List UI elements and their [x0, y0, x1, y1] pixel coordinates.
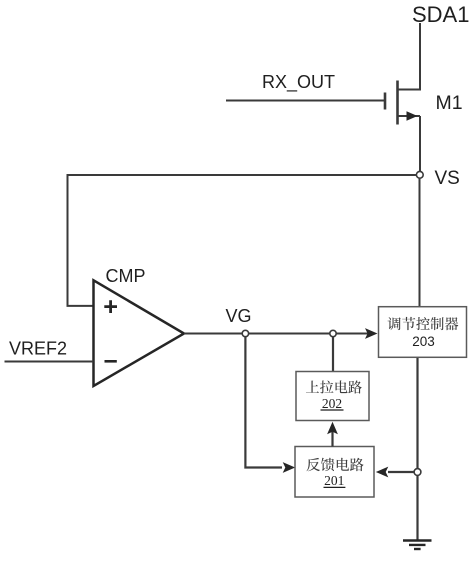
wire junction down to pull-up 202	[332, 337, 334, 372]
wire feedback: VS left and down to CMP + input	[68, 175, 417, 306]
wire VG node down and into feedback 201	[245, 337, 282, 468]
wire M1 source down to node VS	[419, 116, 421, 172]
node VS (open junction)	[416, 171, 423, 178]
label 上拉电路	[306, 380, 362, 393]
wire VREF2 to CMP - input	[5, 361, 94, 363]
arrow into feedback 201	[283, 462, 296, 473]
transistor M1 (NMOS)	[385, 81, 420, 125]
svg-text:VS: VS	[435, 168, 460, 189]
arrow into controller 203	[365, 328, 378, 339]
wire CMP output to controller 203	[184, 333, 375, 335]
block 调节控制器 203	[379, 307, 467, 358]
block 上拉电路 202	[296, 372, 369, 421]
arrow into 201 right side	[376, 467, 389, 478]
arrow into 202 bottom	[327, 422, 338, 435]
label 调节控制器	[388, 317, 459, 330]
svg-text:VG: VG	[226, 306, 252, 326]
plus input marker	[104, 300, 117, 313]
wire 201 up to 202 with arrow	[331, 431, 333, 447]
wire RX_OUT to gate	[226, 100, 385, 102]
wire controller 203 down to ground	[416, 358, 418, 540]
block 反馈电路 201	[295, 447, 374, 498]
node VG (open junction)	[242, 330, 248, 336]
svg-text:203: 203	[412, 334, 435, 349]
wire SDA1 to M1 drain	[398, 23, 421, 90]
node on ground wire (open)	[414, 469, 421, 476]
svg-text:M1: M1	[436, 92, 463, 114]
node junction to 202 (open)	[330, 330, 336, 336]
label 反馈电路	[307, 458, 364, 471]
svg-text:RX_OUT: RX_OUT	[262, 72, 335, 93]
minus input marker	[105, 360, 117, 363]
op-amp CMP triangle	[94, 280, 185, 386]
svg-text:VREF2: VREF2	[9, 339, 67, 359]
svg-text:202: 202	[322, 396, 342, 411]
ground symbol	[403, 541, 432, 550]
wire node to feedback 201 with arrow	[388, 471, 414, 473]
svg-text:201: 201	[324, 473, 344, 488]
svg-text:CMP: CMP	[106, 266, 146, 286]
wire VS down to controller 203	[419, 178, 421, 307]
